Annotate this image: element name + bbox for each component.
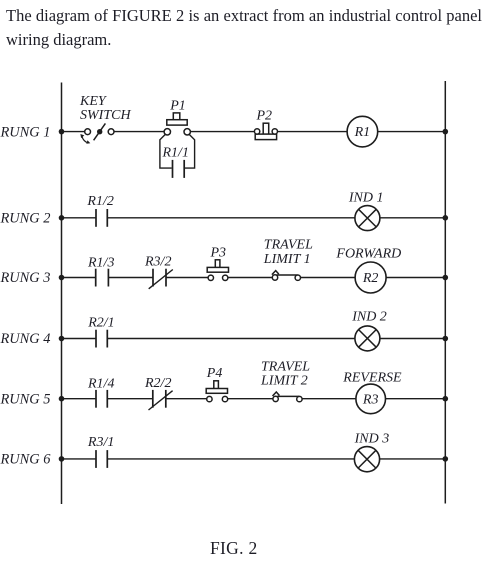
svg-text:FORWARD: FORWARD — [335, 246, 401, 261]
wire: P3 to travel limit 1 — [228, 277, 273, 279]
node: left rail junction rung 6 — [59, 456, 65, 462]
node: right rail junction rung 5 — [443, 396, 449, 402]
node: left rail junction rung 4 — [59, 336, 65, 342]
node: right rail junction rung 1 — [443, 129, 449, 135]
node: left rail junction rung 5 — [59, 396, 65, 402]
svg-text:SWITCH: SWITCH — [80, 108, 131, 123]
wire: P1 to P2 — [190, 131, 254, 133]
push button P1 — [164, 113, 190, 135]
node: right rail junction rung 3 — [443, 275, 449, 281]
svg-text:RUNG 5: RUNG 5 — [0, 391, 50, 407]
contact R2/2 (NC) — [149, 390, 173, 410]
indicator lamp IND 3 — [354, 447, 379, 472]
svg-text:R3/2: R3/2 — [144, 255, 171, 270]
wire: rail to contact R1/3 — [62, 277, 96, 279]
contact R2/1 — [96, 330, 107, 348]
svg-text:IND 3: IND 3 — [354, 432, 390, 447]
node: right rail junction rung 6 — [443, 456, 449, 462]
wire: contact to lamp IND 3 — [107, 458, 354, 460]
relay coil R3 (REVERSE) — [356, 384, 386, 414]
wire: rail to contact R1/2 — [62, 217, 97, 219]
key switch S1 — [80, 123, 114, 143]
limit switch TRAVEL LIMIT 1 — [272, 271, 301, 281]
node: left rail junction rung 2 — [59, 215, 65, 221]
wire: key switch to P1 — [114, 131, 164, 133]
wire: coil R3 to right rail — [386, 398, 446, 400]
wire: coil R2 to right rail — [386, 277, 445, 279]
wire: rail to contact R3/1 — [62, 458, 97, 460]
relay coil R1 — [347, 116, 378, 147]
svg-text:P3: P3 — [210, 245, 227, 260]
svg-text:RUNG 3: RUNG 3 — [0, 270, 50, 286]
wire: R1/3 to R3/2 — [108, 277, 153, 279]
left rail — [61, 83, 63, 505]
svg-text:R3/1: R3/1 — [87, 435, 114, 450]
svg-text:IND 2: IND 2 — [351, 310, 387, 325]
svg-text:R2/2: R2/2 — [144, 376, 171, 391]
svg-text:R1/4: R1/4 — [87, 377, 114, 392]
wire: rail to contact R2/1 — [62, 338, 97, 340]
wire: R3/2 to P3 — [166, 277, 208, 279]
wire: lamp to right rail — [380, 338, 445, 340]
svg-text:FIG. 2: FIG. 2 — [210, 538, 258, 558]
svg-text:R1: R1 — [354, 125, 371, 140]
node: left rail junction rung 3 — [59, 275, 65, 281]
contact R1/1 (parallel branch) — [160, 134, 195, 178]
wire: contact to lamp IND 1 — [107, 217, 355, 219]
svg-text:P1: P1 — [169, 98, 186, 113]
contact R1/2 — [96, 209, 107, 227]
svg-text:TRAVEL: TRAVEL — [264, 237, 313, 252]
node: left rail junction rung 1 — [59, 129, 65, 135]
svg-text:R1/2: R1/2 — [86, 194, 113, 209]
relay coil R2 (FORWARD) — [355, 262, 386, 293]
svg-text:RUNG 4: RUNG 4 — [0, 331, 50, 347]
wire: R2/2 to P4 — [166, 398, 207, 400]
svg-text:IND 1: IND 1 — [348, 191, 384, 206]
wire: R1/4 to R2/2 — [107, 398, 153, 400]
push button P2 (NC style, bar below) — [254, 123, 277, 139]
indicator lamp IND 2 — [355, 326, 380, 351]
svg-text:RUNG 6: RUNG 6 — [0, 452, 51, 468]
svg-text:R1/3: R1/3 — [87, 256, 114, 271]
svg-text:P4: P4 — [206, 366, 223, 381]
right rail — [444, 81, 446, 504]
svg-text:RUNG 2: RUNG 2 — [0, 210, 50, 226]
svg-text:R1/1: R1/1 — [162, 146, 189, 161]
svg-text:RUNG 1: RUNG 1 — [0, 124, 50, 140]
push button P4 — [206, 381, 228, 402]
svg-text:P2: P2 — [256, 108, 273, 123]
svg-text:R3: R3 — [362, 393, 379, 408]
contact R3/2 (NC) — [149, 269, 173, 289]
svg-text:R2/1: R2/1 — [87, 315, 114, 330]
indicator lamp IND 1 — [355, 206, 380, 231]
wire: rail to key switch — [62, 131, 85, 133]
node: right rail junction rung 4 — [443, 336, 449, 342]
node: right rail junction rung 2 — [443, 215, 449, 221]
wire: coil R1 to right rail — [378, 131, 446, 133]
push button P3 — [207, 260, 228, 281]
contact R1/4 — [96, 390, 107, 408]
contact R1/3 — [96, 269, 109, 287]
svg-text:KEY: KEY — [79, 94, 108, 109]
wire: travel limit 2 to coil R3 — [302, 398, 356, 400]
svg-text:LIMIT 2: LIMIT 2 — [260, 374, 308, 389]
svg-text:R2: R2 — [362, 271, 379, 286]
svg-text:TRAVEL: TRAVEL — [261, 359, 310, 374]
contact R3/1 — [96, 450, 107, 468]
svg-text:LIMIT 1: LIMIT 1 — [263, 252, 311, 267]
wire: rail to contact R1/4 — [62, 398, 97, 400]
limit switch TRAVEL LIMIT 2 — [273, 392, 303, 402]
wire: travel limit 1 to coil R2 — [301, 277, 356, 279]
wire: contact to lamp IND 2 — [107, 338, 355, 340]
wire: P4 to travel limit 2 — [228, 398, 273, 400]
wire: lamp to right rail — [380, 217, 445, 219]
svg-text:REVERSE: REVERSE — [342, 370, 402, 385]
wire: lamp to right rail — [380, 458, 446, 460]
wire: P2 to coil R1 — [278, 131, 348, 133]
